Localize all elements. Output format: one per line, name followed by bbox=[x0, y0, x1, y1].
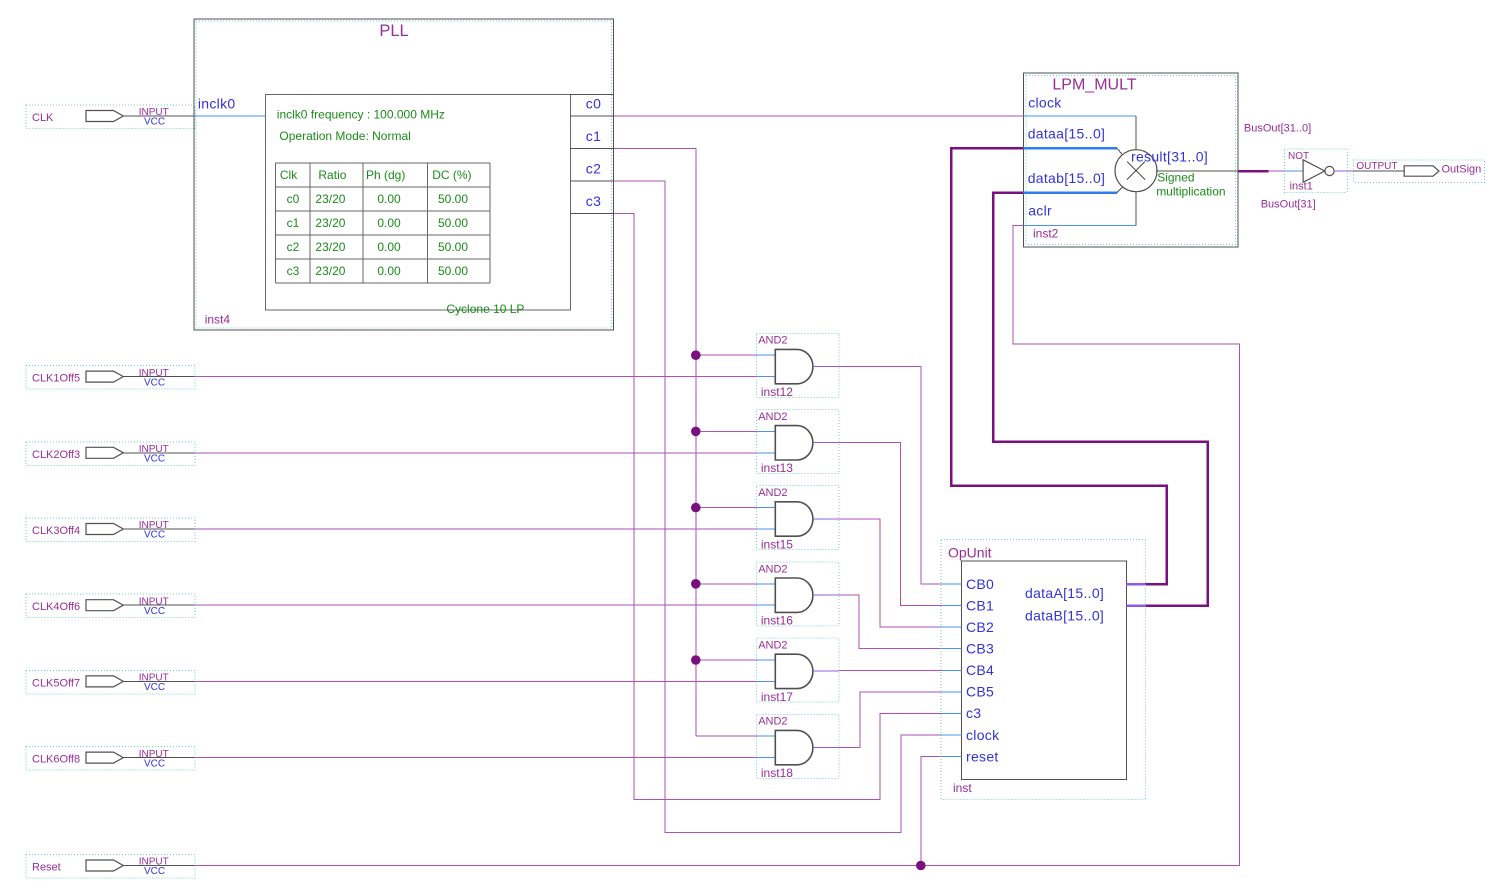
svg-text:c3: c3 bbox=[586, 193, 601, 209]
wire CLK6Off8 net to AND2 input2 bbox=[195, 757, 757, 759]
svg-text:Reset: Reset bbox=[32, 862, 61, 874]
svg-text:aclr: aclr bbox=[1028, 203, 1052, 219]
and-gate AND2 inst18 bbox=[756, 714, 839, 778]
svg-text:23/20: 23/20 bbox=[315, 216, 345, 230]
svg-text:VCC: VCC bbox=[144, 682, 165, 693]
OpUnit input stub CB2 bbox=[941, 626, 961, 628]
bus dataA[15..0]: OpUnit to LPM_MULT.dataa bbox=[951, 148, 1167, 584]
input pin CLK1Off5 bbox=[26, 366, 195, 390]
svg-text:CLK3Off4: CLK3Off4 bbox=[32, 525, 80, 537]
LPM result internal wire bbox=[1156, 170, 1238, 172]
NOT input stub bbox=[1285, 170, 1304, 172]
svg-text:AND2: AND2 bbox=[758, 487, 787, 499]
svg-text:CLK4Off6: CLK4Off6 bbox=[32, 601, 80, 613]
LPM dataa internal bus bbox=[1024, 147, 1117, 150]
svg-text:inclk0 frequency : 100.000 MH: inclk0 frequency : 100.000 MHz bbox=[277, 108, 445, 122]
input pin CLK3Off4 bbox=[26, 518, 195, 542]
wire inst18 output to OpUnit.CB5 bbox=[839, 692, 941, 748]
junction c1 at gate row 5 bbox=[691, 655, 701, 665]
OpUnit input stub CB4 bbox=[941, 669, 961, 671]
input pin CLK6Off8 bbox=[26, 747, 195, 771]
svg-text:CLK6Off8: CLK6Off8 bbox=[32, 754, 80, 766]
wire CLK5Off7 net to AND2 input2 bbox=[195, 680, 757, 682]
wire inst16 output to OpUnit.CB3 bbox=[839, 595, 941, 649]
svg-text:inst18: inst18 bbox=[761, 766, 793, 780]
svg-text:CLK5Off7: CLK5Off7 bbox=[32, 677, 80, 689]
and-gate AND2 inst15 bbox=[756, 486, 839, 550]
input pin Reset bbox=[26, 855, 195, 879]
svg-text:BusOut[31]: BusOut[31] bbox=[1261, 199, 1316, 211]
svg-text:VCC: VCC bbox=[144, 454, 165, 465]
svg-text:inst13: inst13 bbox=[761, 461, 793, 475]
svg-text:c0: c0 bbox=[287, 192, 300, 206]
LPM internal vertical bottom bbox=[1135, 191, 1137, 225]
svg-text:Ratio: Ratio bbox=[318, 168, 346, 182]
svg-text:50.00: 50.00 bbox=[438, 192, 468, 206]
LPM datab internal bus bbox=[1024, 192, 1117, 195]
bus dataB[15..0]: OpUnit to LPM_MULT.datab bbox=[993, 193, 1207, 606]
wire CLK4Off6 net to AND2 input2 bbox=[195, 604, 757, 606]
multiplier X stroke 2 bbox=[1127, 162, 1145, 180]
svg-text:PLL: PLL bbox=[379, 22, 408, 40]
NOT output stub bbox=[1334, 170, 1347, 172]
svg-text:inclk0: inclk0 bbox=[198, 96, 236, 112]
wire c1 branch to AND2 inst18 input1 bbox=[696, 735, 757, 737]
svg-text:c0: c0 bbox=[586, 96, 601, 112]
wire c1 branch to AND2 inst13 input1 bbox=[696, 430, 757, 432]
and-gate AND2 inst16 bbox=[756, 562, 839, 626]
OpUnit input stub CB0 bbox=[941, 583, 961, 585]
LPM internal vertical top bbox=[1135, 116, 1137, 151]
svg-text:0.00: 0.00 bbox=[377, 216, 401, 230]
svg-text:c2: c2 bbox=[287, 240, 300, 254]
svg-text:inst12: inst12 bbox=[761, 385, 793, 399]
LPM aclr internal wire bbox=[1024, 224, 1137, 226]
wire NOT output to OUTPUT pin bbox=[1334, 170, 1354, 172]
svg-text:VCC: VCC bbox=[144, 377, 165, 388]
svg-text:AND2: AND2 bbox=[758, 716, 787, 728]
junction c1 at gate row 4 bbox=[691, 579, 701, 589]
wire inst13 output to OpUnit.CB1 bbox=[839, 443, 941, 606]
wire inst15 output to OpUnit.CB2 bbox=[839, 519, 941, 627]
LPM_MULT block inst2 bbox=[1024, 73, 1239, 247]
svg-text:result[31..0]: result[31..0] bbox=[1131, 149, 1208, 165]
svg-text:CLK: CLK bbox=[32, 112, 54, 124]
input pin CLK bbox=[26, 105, 195, 129]
wire inst12 output to OpUnit.CB0 bbox=[839, 366, 941, 584]
svg-text:c3: c3 bbox=[966, 705, 981, 721]
svg-text:datab[15..0]: datab[15..0] bbox=[1028, 170, 1106, 186]
svg-text:OpUnit: OpUnit bbox=[948, 545, 992, 561]
svg-text:c2: c2 bbox=[586, 161, 601, 177]
svg-text:LPM_MULT: LPM_MULT bbox=[1052, 77, 1136, 94]
wire Reset net: pin to LPM aclr (long route) bbox=[195, 225, 1240, 865]
OpUnit output stub dataA bbox=[1127, 583, 1146, 586]
svg-text:inst4: inst4 bbox=[205, 313, 231, 327]
wire net c3: PLL.c3 to OpUnit.c3 bbox=[614, 214, 942, 800]
svg-text:dataa[15..0]: dataa[15..0] bbox=[1028, 126, 1106, 142]
svg-text:c3: c3 bbox=[287, 264, 300, 278]
input pin CLK4Off6 bbox=[26, 594, 195, 618]
svg-text:dataB[15..0]: dataB[15..0] bbox=[1025, 607, 1104, 623]
svg-text:dataA[15..0]: dataA[15..0] bbox=[1025, 585, 1104, 601]
LPM datab diagonal bbox=[1117, 187, 1123, 193]
junction c1 at gate row 3 bbox=[691, 503, 701, 513]
svg-text:CB5: CB5 bbox=[966, 684, 994, 700]
LPM clock internal wire bbox=[1024, 115, 1137, 117]
svg-text:50.00: 50.00 bbox=[438, 264, 468, 278]
svg-text:inst2: inst2 bbox=[1033, 227, 1059, 241]
and-gate AND2 inst17 bbox=[756, 638, 839, 702]
input pin CLK5Off7 bbox=[26, 670, 195, 694]
svg-text:VCC: VCC bbox=[144, 758, 165, 769]
svg-text:BusOut[31..0]: BusOut[31..0] bbox=[1244, 123, 1311, 135]
svg-text:inst: inst bbox=[953, 781, 972, 795]
svg-text:multiplication: multiplication bbox=[1156, 184, 1225, 198]
wire inst17 output to OpUnit.CB4 bbox=[839, 669, 941, 671]
svg-text:NOT: NOT bbox=[1288, 151, 1309, 162]
PLL output port tabs c0-c3 bbox=[571, 94, 614, 96]
svg-text:0.00: 0.00 bbox=[377, 192, 401, 206]
svg-text:inst16: inst16 bbox=[761, 614, 793, 628]
svg-text:VCC: VCC bbox=[144, 606, 165, 617]
wire CLK2Off3 net to AND2 input2 bbox=[195, 452, 757, 454]
wire Reset branch to OpUnit.reset bbox=[921, 757, 941, 866]
svg-text:VCC: VCC bbox=[144, 866, 165, 877]
svg-text:CB1: CB1 bbox=[966, 597, 994, 613]
wire BusOut[31] to NOT input bbox=[1269, 170, 1285, 172]
wire CLK1Off5 net to AND2 input2 bbox=[195, 376, 757, 378]
svg-text:CLK2Off3: CLK2Off3 bbox=[32, 449, 80, 461]
svg-text:DC (%): DC (%) bbox=[432, 168, 471, 182]
PLL inner parameter box bbox=[265, 95, 570, 311]
wire inclk0 inside PLL bbox=[194, 115, 265, 117]
svg-text:23/20: 23/20 bbox=[315, 264, 345, 278]
svg-text:OutSign: OutSign bbox=[1442, 163, 1482, 175]
bus BusOut[31..0] from LPM_MULT.result bbox=[1238, 170, 1269, 173]
svg-text:c1: c1 bbox=[287, 216, 300, 230]
junction c1 at gate row 1 bbox=[691, 350, 701, 360]
PLL selection dashes bbox=[196, 21, 611, 328]
svg-text:AND2: AND2 bbox=[758, 563, 787, 575]
svg-text:Ph (dg): Ph (dg) bbox=[366, 168, 405, 182]
wire CLK3Off4 net to AND2 input2 bbox=[195, 528, 757, 530]
not-gate NOT inst1 bbox=[1285, 149, 1348, 192]
svg-text:AND2: AND2 bbox=[758, 335, 787, 347]
and-gate AND2 inst12 bbox=[756, 333, 839, 397]
OpUnit output stub dataB bbox=[1127, 604, 1146, 607]
svg-text:VCC: VCC bbox=[144, 117, 165, 128]
wire net c1 vertical trunk bbox=[695, 149, 697, 737]
OpUnit input stub reset bbox=[941, 756, 961, 758]
svg-text:CB0: CB0 bbox=[966, 576, 994, 592]
OpUnit input stub CB3 bbox=[941, 648, 961, 650]
wire net c2: PLL.c2 to OpUnit.clock bbox=[614, 181, 942, 833]
LPM multiplier circle symbol bbox=[1115, 150, 1157, 192]
svg-text:clock: clock bbox=[966, 727, 1000, 743]
svg-text:50.00: 50.00 bbox=[438, 216, 468, 230]
LPM dataa diagonal bbox=[1117, 148, 1123, 155]
OpUnit block inst bbox=[941, 540, 1145, 800]
svg-text:23/20: 23/20 bbox=[315, 192, 345, 206]
PLL block inst4 outline bbox=[194, 19, 613, 330]
svg-text:AND2: AND2 bbox=[758, 411, 787, 423]
svg-text:Signed: Signed bbox=[1157, 170, 1194, 184]
wire CLK net to PLL inclk0 (blue) bbox=[195, 115, 266, 117]
OpUnit input stub c3 bbox=[941, 712, 961, 714]
svg-text:inst17: inst17 bbox=[761, 690, 793, 704]
svg-text:50.00: 50.00 bbox=[438, 240, 468, 254]
svg-text:inst15: inst15 bbox=[761, 537, 793, 551]
svg-text:CLK1Off5: CLK1Off5 bbox=[32, 373, 80, 385]
multiplier X stroke 1 bbox=[1127, 162, 1145, 180]
wire c1 branch to AND2 inst12 input1 bbox=[696, 354, 757, 356]
and-gate AND2 inst13 bbox=[756, 410, 839, 474]
OpUnit input stub CB1 bbox=[941, 605, 961, 607]
svg-text:Clk: Clk bbox=[280, 168, 298, 182]
svg-text:CB3: CB3 bbox=[966, 641, 994, 657]
svg-text:inst1: inst1 bbox=[1290, 181, 1313, 193]
svg-text:c1: c1 bbox=[586, 128, 601, 144]
junction Reset branch bbox=[916, 861, 926, 871]
svg-text:Cyclone 10 LP: Cyclone 10 LP bbox=[446, 302, 524, 316]
OpUnit input stub CB5 bbox=[941, 691, 961, 693]
svg-text:OUTPUT: OUTPUT bbox=[1356, 161, 1397, 172]
OpUnit input stub clock bbox=[941, 734, 961, 736]
svg-text:clock: clock bbox=[1028, 95, 1062, 111]
wire net c0: PLL.c0 to LPM_MULT.clock bbox=[614, 115, 1024, 117]
svg-text:CB4: CB4 bbox=[966, 662, 994, 678]
svg-text:VCC: VCC bbox=[144, 530, 165, 541]
wire net c1: PLL.c1 horizontal bbox=[614, 148, 696, 150]
svg-text:0.00: 0.00 bbox=[377, 264, 401, 278]
junction c1 at gate row 2 bbox=[691, 427, 701, 437]
wire c1 branch to AND2 inst16 input1 bbox=[696, 583, 757, 585]
svg-text:23/20: 23/20 bbox=[315, 240, 345, 254]
svg-text:CB2: CB2 bbox=[966, 619, 994, 635]
input pin CLK2Off3 bbox=[26, 442, 195, 466]
output pin OutSign bbox=[1354, 160, 1485, 183]
wire c1 branch to AND2 inst15 input1 bbox=[696, 507, 757, 509]
PLL clock table bbox=[276, 162, 491, 164]
wire c1 branch to AND2 inst17 input1 bbox=[696, 659, 757, 661]
svg-text:AND2: AND2 bbox=[758, 640, 787, 652]
svg-text:0.00: 0.00 bbox=[377, 240, 401, 254]
svg-text:Operation Mode: Normal: Operation Mode: Normal bbox=[279, 129, 410, 143]
svg-text:reset: reset bbox=[966, 748, 999, 764]
LPM_MULT selection dashes bbox=[1026, 76, 1236, 245]
